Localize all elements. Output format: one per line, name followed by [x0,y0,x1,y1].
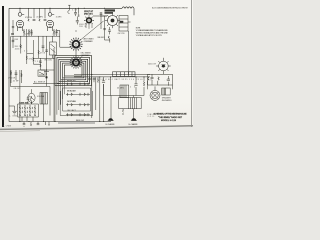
svg-text:SCHEMATIC OF THE WESTINGHOUSE: SCHEMATIC OF THE WESTINGHOUSE [154,113,188,116]
svg-text:.05 MFD: .05 MFD [56,16,63,18]
pilot lamp tap [68,5,70,8]
potentiometer R14 volume [28,93,35,102]
svg-text:VOLUME: VOLUME [37,96,45,98]
svg-text:COIL: COIL [148,116,155,118]
wires band switch to bus [92,77,111,121]
label tuning condenser B [80,55,84,60]
wire left frame [8,8,10,121]
label tube V4 1ST DET OSC [105,9,116,11]
switch S1 on-off [38,70,45,76]
note text block right [136,28,169,37]
filter capacitor C11 and power transformer T4 [102,77,145,120]
capacitors C7 C8 bypass on bottom bus [23,122,26,127]
svg-text:150: 150 [129,79,134,81]
capacitors C9 C10 resistor R16 [88,77,99,83]
resistors R17 R18 capacitors C12 C13 output stage [148,74,173,95]
svg-text:470K: 470K [40,53,46,55]
svg-text:47K 200: 47K 200 [25,17,32,19]
svg-text:BROADCAST: BROADCAST [67,90,77,93]
capacitors C1 C2 and resistors R1 R2 grid coupling [28,8,47,21]
svg-text:B+ CHASSIS: B+ CHASSIS [129,123,139,126]
wire top B+ [9,7,122,9]
title block [154,113,188,123]
svg-text:ALL VOLTAGES MEASURED WITH A V: ALL VOLTAGES MEASURED WITH A VOLTOHMYST [152,6,189,9]
paper background [0,0,200,141]
svg-text:AERIAL SEC: AERIAL SEC [67,79,77,82]
coil squiggle on top wire [122,7,134,9]
capacitor C6 coupling [27,96,30,104]
svg-text:OSC. SECT.: OSC. SECT. [67,110,77,112]
value labels power bus [101,79,143,90]
tube V3 socket 2nd det [84,15,94,29]
IF transformer T2 [50,42,57,55]
switch S2 tone contact grid [18,104,39,117]
loop antenna L1 [55,56,92,86]
audio transformer T3 [40,93,48,105]
svg-text:.05 MFD: .05 MFD [36,17,44,19]
wire B+ bus and resistor R15 candohm [74,72,150,77]
svg-text:ON-OFF: ON-OFF [14,88,21,90]
svg-text:C. GND: C. GND [9,116,18,118]
page left edge shadow [2,6,4,127]
wire from coil down [133,8,135,15]
resistors R12 R13 AVC network [9,5,71,127]
svg-text:40 MFD: 40 MFD [117,88,125,90]
svg-text:456KC IF: 456KC IF [79,24,87,26]
svg-text:CONDENSER: CONDENSER [84,41,94,43]
svg-text:"THE JEWEL" RADIO SET: "THE JEWEL" RADIO SET [158,116,183,119]
svg-text:B- CHAS: B- CHAS [3,125,12,128]
resistors R3 R4 R5 cathode network V1 [11,20,33,36]
page bottom edge [0,126,193,130]
switch S3 contacts [68,83,89,117]
svg-text:450 OHM FLD: 450 OHM FLD [162,100,173,102]
ground power return [129,118,139,126]
svg-text:2ND IF: 2ND IF [79,26,86,28]
tuning condenser gang A [57,31,83,59]
svg-text:OSC COIL: OSC COIL [44,60,52,62]
svg-text:A.C. SWITCH: A.C. SWITCH [34,81,46,84]
tube V1 12SK7 [16,8,24,31]
wires loop antenna taps [55,76,65,122]
svg-text:35Z5: 35Z5 [122,79,128,81]
capacitor C3 and antenna connector [68,8,107,24]
svg-text:VOLTAGE HELD AT 117 V. 60 CPS: VOLTAGE HELD AT 117 V. 60 CPS [136,34,163,37]
svg-text:250 .1: 250 .1 [53,34,59,36]
svg-text:470K 1W: 470K 1W [8,78,15,80]
svg-text:.02 MF: .02 MF [13,80,19,82]
ground chassis left [9,106,17,114]
wire bottom double under switch [58,122,95,124]
ground B- chassis [106,118,116,126]
wire bottom [9,121,111,123]
svg-text:470K: 470K [29,58,35,60]
svg-text:.01 MF: .01 MF [12,39,18,41]
svg-text:25L6: 25L6 [137,79,143,81]
svg-text:MODEL H-126: MODEL H-126 [161,120,177,122]
svg-text:BAND SW: BAND SW [76,119,84,122]
tube V5 output 50L6 [156,58,171,75]
labels band switch sections [67,79,84,122]
node junction dots [19,8,144,122]
wires left supply column [10,36,60,121]
capacitors C4 C5 grid network V4 [100,12,111,43]
page right edge line [190,0,192,127]
svg-text:220: 220 [35,61,40,63]
svg-text:60 C: 60 C [108,79,114,81]
svg-text:RECT.: RECT. [115,79,122,81]
svg-text:SHORTWAVE: SHORTWAVE [67,100,77,103]
speaker LS1 [150,86,160,100]
tuning condenser gang B [70,56,83,69]
svg-text:B- CHASSIS: B- CHASSIS [106,123,116,126]
resistors R8 R9 R10 R11 [20,45,22,49]
svg-text:50L6 GT: 50L6 GT [148,64,157,66]
svg-text:PADDER: PADDER [98,36,106,39]
svg-text:TONE SW: TONE SW [19,102,28,104]
svg-text:.0001: .0001 [15,48,20,50]
tube V4 socket 1st det osc [105,13,120,29]
dial cord diagonal [80,21,104,40]
tube V2 12SK7 [46,8,54,31]
oscillator coil T1 [119,16,131,76]
switch S3 band switch frame [60,84,92,116]
resistors R6 R7 cathode network V2 [53,29,58,36]
svg-text:OSC 1720: OSC 1720 [118,33,125,35]
svg-text:2.2 MEG 50: 2.2 MEG 50 [24,34,33,36]
